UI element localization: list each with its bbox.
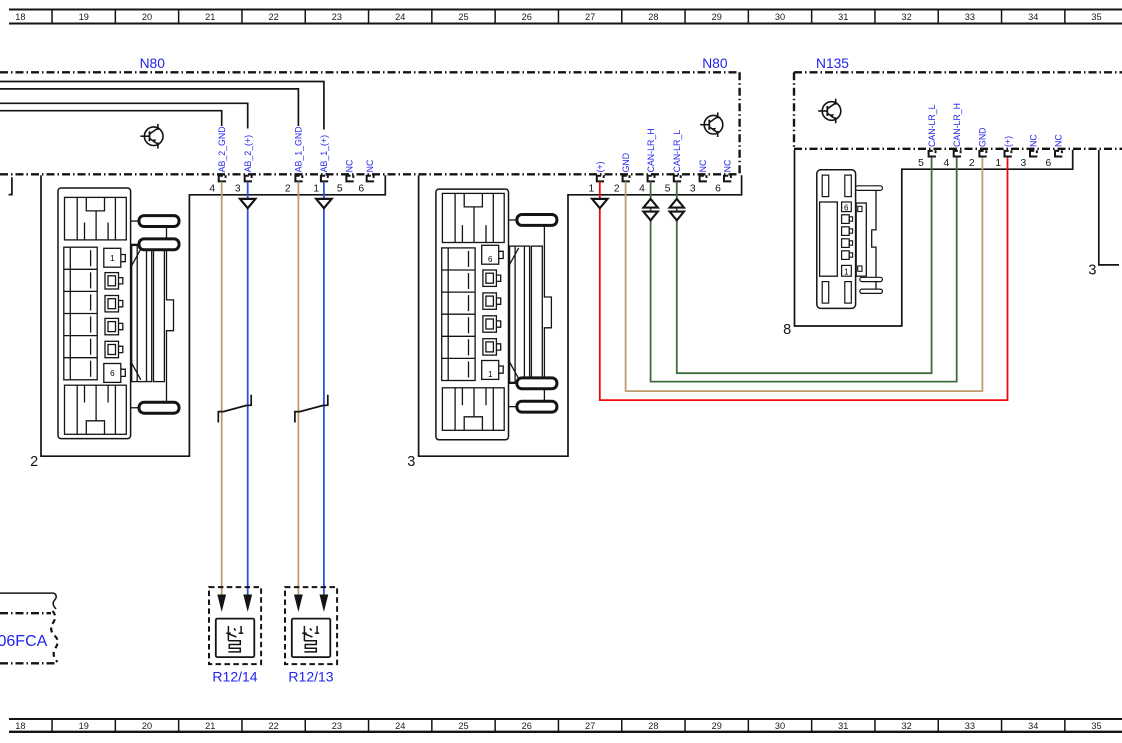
connector 2 enclosure outline [41, 175, 385, 456]
svg-text:34: 34 [1028, 721, 1038, 731]
svg-text:28: 28 [648, 721, 658, 731]
svg-text:22: 22 [268, 721, 278, 731]
wire CAN-LR_H green from N80 pin4 to N135 pin4 [651, 158, 957, 382]
svg-text:(+): (+) [595, 161, 605, 172]
svg-text:6: 6 [110, 369, 115, 378]
svg-text:CAN-LR_H: CAN-LR_H [952, 103, 962, 147]
svg-text:N80: N80 [702, 56, 728, 71]
svg-text:1: 1 [110, 254, 115, 263]
pin 2 of connector 3 (GND) [614, 175, 630, 194]
svg-text:AB_2_GND: AB_2_GND [217, 126, 227, 172]
svg-text:3: 3 [407, 454, 415, 470]
twisted-pair symbol on CAN-LR_H [643, 199, 657, 220]
wire AB_2_(+) (blue) to R12/14 [247, 182, 249, 595]
svg-text:5: 5 [918, 158, 924, 169]
svg-text:3: 3 [690, 183, 696, 194]
svg-text:8: 8 [783, 322, 791, 338]
arrow symbol on wire AB_1_(+) [316, 199, 331, 208]
squib element symbol in R12/14 [216, 619, 255, 658]
svg-text:28: 28 [648, 12, 658, 22]
svg-text:3: 3 [1021, 158, 1027, 169]
pin 4 of connector 3 (CAN-LR_H) [639, 175, 655, 194]
svg-text:1: 1 [995, 158, 1001, 169]
pin 1 of connector 2 (AB_1_(+)) [313, 175, 328, 194]
svg-text:21: 21 [205, 721, 215, 731]
column ruler band [9, 10, 1122, 24]
separation point symbol (left pair) [218, 395, 251, 423]
svg-text:NC: NC [722, 159, 732, 172]
svg-text:21: 21 [205, 12, 215, 22]
pin 2 of connector 8 (GND) [969, 150, 987, 169]
svg-text:1: 1 [844, 268, 849, 277]
svg-text:R12/13: R12/13 [288, 669, 333, 685]
svg-text:CAN-LR_H: CAN-LR_H [646, 128, 656, 172]
arrow into R12/14 (right) [243, 595, 252, 613]
svg-text:2: 2 [614, 183, 620, 194]
pin 1 of connector 8 ((+)) [995, 150, 1011, 169]
svg-text:6: 6 [358, 183, 364, 194]
wire stub with break (bottom left) [0, 592, 54, 594]
control unit N135 dash-dot box [794, 72, 1122, 149]
svg-text:26: 26 [522, 721, 532, 731]
svg-text:29: 29 [712, 721, 722, 731]
svg-text:6: 6 [715, 183, 721, 194]
svg-text:2: 2 [30, 454, 38, 470]
connector drawing in box 8 [817, 170, 883, 309]
svg-text:32: 32 [901, 12, 911, 22]
pin 3 of connector 3 (NC) [690, 175, 707, 194]
connector drawing in box 3 [436, 189, 557, 440]
svg-text:24: 24 [395, 12, 405, 22]
svg-text:GND: GND [621, 153, 631, 173]
svg-text:GND: GND [978, 127, 988, 147]
wire AB_1_GND inside N80 [0, 89, 298, 126]
svg-text:25: 25 [458, 12, 468, 22]
svg-text:3: 3 [235, 183, 241, 194]
svg-text:N80: N80 [140, 56, 166, 71]
svg-text:6: 6 [844, 203, 849, 212]
arrow into R12/14 (left) [217, 595, 226, 613]
continuation bracket (left edge) [9, 177, 12, 194]
svg-text:N135: N135 [816, 56, 849, 71]
svg-text:30: 30 [775, 721, 785, 731]
svg-text:27: 27 [585, 721, 595, 731]
svg-text:NC: NC [1028, 134, 1038, 147]
continuation bracket 3 (right edge) [1099, 150, 1119, 265]
svg-text:31: 31 [838, 721, 848, 731]
wire CAN-LR_L green from N80 pin5 to N135 pin5 [677, 158, 932, 374]
transistor symbol in N135 [818, 99, 841, 124]
svg-text:23: 23 [332, 12, 342, 22]
wire AB_2_GND (tan) to R12/14 [221, 182, 223, 595]
svg-text:23: 23 [332, 721, 342, 731]
svg-text:4: 4 [944, 158, 950, 169]
arrow into R12/13 (left) [294, 595, 303, 613]
svg-text:NC: NC [345, 159, 355, 172]
transistor symbol in N80 (right) [700, 112, 723, 137]
svg-text:1: 1 [589, 183, 595, 194]
svg-text:18: 18 [15, 12, 25, 22]
wire AB_2_GND inside N80 [0, 111, 222, 126]
svg-text:20: 20 [142, 12, 152, 22]
arrow symbol on wire AB_2_(+) [240, 199, 255, 208]
svg-text:(+): (+) [1003, 136, 1013, 147]
torn dash-dot box 06FCA [0, 611, 58, 663]
svg-text:29: 29 [712, 12, 722, 22]
connector drawing in box 2 [58, 188, 179, 439]
pin 6 of connector 8 (NC) [1046, 150, 1063, 169]
dashed box igniter R12/13 [285, 587, 337, 664]
wire GND tan from N80 pin2 to N135 pin2 [626, 158, 983, 392]
twisted-pair symbol on CAN-LR_L [670, 199, 684, 220]
svg-text:CAN-LR_L: CAN-LR_L [927, 104, 937, 147]
pin 1 of connector 3 ((+)) [589, 175, 605, 194]
pin 4 of connector 8 (CAN-LR_H) [944, 150, 961, 169]
column ruler band [9, 719, 1122, 732]
svg-text:33: 33 [965, 12, 975, 22]
svg-text:18: 18 [15, 721, 25, 731]
svg-text:NC: NC [1053, 134, 1063, 147]
svg-text:NC: NC [698, 159, 708, 172]
control unit N80 dash-dot box [0, 72, 740, 174]
pin 4 of connector 2 (AB_2_GND) [209, 175, 226, 194]
arrow symbol on wire (+) red [592, 199, 607, 208]
pin 5 of connector 2 (NC) [337, 175, 354, 194]
svg-text:35: 35 [1091, 12, 1101, 22]
pin 3 of connector 2 (AB_2_(+)) [235, 175, 252, 194]
pin 5 of connector 8 (CAN-LR_L) [918, 150, 936, 169]
svg-text:R12/14: R12/14 [212, 669, 257, 685]
separation point symbol (right pair) [295, 395, 328, 423]
svg-text:2: 2 [969, 158, 975, 169]
transistor symbol in N80 (left) [140, 124, 163, 149]
svg-text:32: 32 [901, 721, 911, 731]
pin 3 of connector 8 (NC) [1021, 150, 1038, 169]
svg-text:2: 2 [285, 183, 291, 194]
pin 6 of connector 2 (NC) [358, 175, 374, 194]
svg-text:25: 25 [458, 721, 468, 731]
svg-text:20: 20 [142, 721, 152, 731]
squib element symbol in R12/13 [292, 619, 331, 658]
svg-text:30: 30 [775, 12, 785, 22]
svg-text:AB_1_GND: AB_1_GND [294, 126, 304, 172]
pin 6 of connector 3 (NC) [715, 175, 731, 194]
svg-text:4: 4 [209, 183, 215, 194]
svg-text:19: 19 [79, 721, 89, 731]
svg-text:5: 5 [665, 183, 671, 194]
pin 2 of connector 2 (AB_1_GND) [285, 175, 303, 194]
dashed box igniter R12/14 [209, 587, 261, 664]
svg-text:34: 34 [1028, 12, 1038, 22]
svg-text:06FCA: 06FCA [0, 633, 48, 650]
connector 8 enclosure outline [795, 150, 1073, 326]
svg-text:27: 27 [585, 12, 595, 22]
svg-text:19: 19 [79, 12, 89, 22]
svg-text:1: 1 [313, 183, 319, 194]
svg-text:3: 3 [1088, 262, 1096, 278]
svg-text:CAN-LR_L: CAN-LR_L [672, 130, 682, 173]
svg-text:AB_2_(+): AB_2_(+) [243, 135, 253, 172]
svg-text:24: 24 [395, 721, 405, 731]
svg-text:6: 6 [1046, 158, 1052, 169]
svg-text:33: 33 [965, 721, 975, 731]
svg-text:5: 5 [337, 183, 343, 194]
wire AB_1_(+) inside N80 [0, 82, 324, 130]
wire AB_2_(+) inside N80 [0, 103, 248, 128]
connector 3 enclosure outline [419, 175, 742, 456]
wire AB_1_(+) (blue) to R12/13 [323, 182, 325, 595]
svg-text:NC: NC [365, 159, 375, 172]
wire (+) red from N80 pin1 to N135 pin1 [600, 158, 1008, 401]
svg-text:4: 4 [639, 183, 645, 194]
svg-text:26: 26 [522, 12, 532, 22]
wire AB_1_GND (tan) to R12/13 [297, 182, 299, 595]
svg-text:1: 1 [488, 370, 493, 379]
svg-text:35: 35 [1091, 721, 1101, 731]
svg-text:6: 6 [488, 255, 493, 264]
svg-text:AB_1_(+): AB_1_(+) [319, 135, 329, 172]
svg-text:31: 31 [838, 12, 848, 22]
arrow into R12/13 (right) [320, 595, 329, 613]
svg-text:22: 22 [268, 12, 278, 22]
pin 5 of connector 3 (CAN-LR_L) [665, 175, 681, 194]
